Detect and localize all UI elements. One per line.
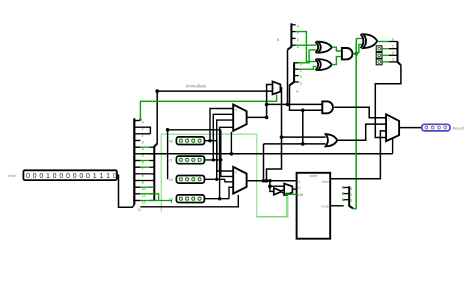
wire AND1 result vertical [355,39,357,209]
wire bit2 tap [140,133,150,135]
svg-text:Instr: Instr [8,173,16,178]
wire r2 to mux1 in2 [217,120,234,179]
svg-text:0: 0 [235,170,237,174]
svg-text:1: 1 [350,193,352,197]
wire bit11 [140,194,158,201]
wire r0 out [204,140,217,142]
svg-text:r3: r3 [169,197,172,201]
svg-text:0: 0 [53,173,57,180]
wire bit0 to imm-mux select [140,94,276,120]
multiplexer MUX1 (read port A) [233,105,246,131]
wire subtract select [257,194,287,216]
junction on OR in1 line [301,142,305,146]
multiplexer MUX4 (B invert select) [284,184,292,196]
wire Sum to result mux in2 [330,131,386,179]
and gate AND2 [322,101,333,113]
wire r3 to mux1 in3 [220,127,234,198]
multiplexer MUX5 (result select) [386,114,399,141]
svg-text:2: 2 [297,38,299,42]
not gate N1 [274,188,282,195]
junction NOT branch [268,179,272,183]
svg-text:adder: adder [309,174,318,178]
svg-text:0: 0 [113,173,117,180]
svg-text:3: 3 [300,82,302,86]
wire to NOT in [270,181,274,192]
wire XOR2 out to AND1 [332,57,342,65]
multiplexer MUX2 (read port B) [233,167,246,194]
probe r3 [176,195,204,203]
svg-text:Sum: Sum [322,180,329,184]
wire Bmux in0 [270,185,284,187]
or gate OR1 [326,134,338,146]
xor gate X2 [318,59,332,70]
wire result mux select [392,139,394,154]
svg-text:0: 0 [79,173,83,180]
wire A0 to XOR1 in1 [299,50,316,63]
probe r1 [176,156,204,164]
svg-text:0: 0 [26,173,30,180]
splitter SB (B operand bits) [288,23,292,49]
wire r2 to mux2 in2 [225,179,233,182]
junction r1 on riser [219,158,222,161]
svg-text:B: B [277,37,280,42]
wire bit12 [140,201,171,203]
wire OR in1 riser [263,144,265,181]
wire B3 to XOR1 in0 [296,44,317,46]
svg-text:0: 0 [33,173,37,180]
splitter SRT (combine flag bits) [398,42,401,66]
output pin P2 [376,52,382,58]
wire A1 to XOR2 in1 [299,66,316,69]
junction register fanout [208,139,211,142]
svg-text:0: 0 [297,24,299,28]
wire Bmux out to adder B [292,188,296,190]
wire r1 to mux1 in1 [213,114,233,160]
svg-text:Cout: Cout [321,204,328,208]
junction Immediate corner [155,89,159,93]
wire OR in0 line [282,136,326,138]
probe r0 [176,137,204,145]
junction B on AND line [286,103,290,107]
wire B operand down [267,88,282,181]
svg-text:3: 3 [392,58,394,62]
wire OR out to result mux in1 [337,124,386,140]
wire flag bus to result mux in3 [375,65,401,137]
and gate AND1 [342,48,353,59]
junction tap [301,109,305,113]
svg-text:1: 1 [93,173,97,180]
wire to Result pin [399,127,422,129]
svg-text:0: 0 [66,173,70,180]
svg-text:1: 1 [392,45,394,49]
svg-text:0: 0 [59,173,63,180]
xor gate X3 [363,34,377,48]
wire write data bus [168,130,221,180]
wire select bus [140,153,392,155]
svg-text:3: 3 [142,140,144,144]
wire r3 out [204,198,229,200]
wire bit1 tap [140,127,150,134]
wire r2 out [204,178,225,180]
wire mux2 out to adder A [247,180,297,182]
junction register fanout [212,158,215,161]
wire A bus to AND2 in1 [290,85,325,111]
svg-text:2: 2 [350,199,352,203]
junction OR in0 tap [280,135,284,139]
wire bit9 [140,180,149,182]
junction Bmux branch [268,184,272,188]
junction register fanout [215,178,218,181]
svg-text:r0: r0 [169,139,172,143]
wire B1 to XOR2 in0 [296,32,317,62]
probe r2 [176,176,204,184]
wire AND2 out to result mux in0 [334,107,386,118]
wire r0 to mux2 in0 [217,141,233,171]
svg-text:Result: Result [453,125,465,130]
svg-text:0: 0 [235,108,237,112]
wire AND1 out [353,53,356,55]
xor gate X1 [318,42,332,53]
output pin P1 [376,46,382,52]
wire XOR3 out [377,41,389,43]
wire pin stub [382,61,389,63]
output pin Result [422,124,450,131]
adder U_ADD [297,173,331,239]
splitter SRB (Cout combine) [349,186,353,208]
wire to XOR3 in1 [356,44,362,52]
junction mux1 select on bus [230,152,234,156]
svg-text:A: A [296,89,299,94]
junction AND1 out [354,52,358,56]
svg-text:0: 0 [350,187,352,191]
wire r3 to mux2 in3 [229,187,233,199]
svg-text:0: 0 [392,37,394,41]
wire A to AND2 in0 [267,103,324,105]
svg-text:0: 0 [39,173,43,180]
wire Instr to splitter [117,175,134,207]
junction bit0 leg [139,118,142,121]
junction write bus corner [166,128,170,132]
wire bit4 [140,146,149,148]
wire splitter base [353,207,356,210]
wire r1 out [204,159,220,161]
wire write bus to mux2 in1 [221,130,233,177]
splitter SA (A operand bits) [290,62,295,85]
junction Cin [285,193,289,197]
wire mux2 select [140,195,238,207]
wire pin stub [382,48,389,50]
splitter SP1 (instruction bits) [133,118,135,204]
svg-text:13: 13 [137,208,141,212]
svg-text:0: 0 [73,173,77,180]
wire bit10 [140,186,154,188]
svg-text:0: 0 [388,117,390,121]
output pin P3 [376,59,382,65]
wire Cout [330,205,344,207]
wire pin stub [382,54,389,56]
wire mux1 out to imm-mux in0 [247,85,273,118]
splitter SP2 (immediate field) [154,144,157,201]
wire down to OR in1 line [302,110,304,144]
svg-text:Immediate: Immediate [186,84,207,89]
wire bit8 [140,173,149,175]
wire Immediate bus [157,91,272,144]
svg-text:2: 2 [392,51,394,55]
svg-text:Cin: Cin [298,193,303,197]
svg-text:r2: r2 [169,178,172,182]
junction register fanout [218,197,221,200]
wire B bus down [287,50,289,105]
svg-text:1: 1 [99,173,103,180]
junction OR riser on adder line [262,179,266,183]
svg-text:1: 1 [106,173,110,180]
wire XOR1 out to AND1 [332,47,342,51]
svg-text:0: 0 [142,120,144,124]
wire to XOR3 in0 [356,38,362,40]
wire OR in1 line [264,143,326,145]
input pin Instr (14-bit) [23,170,117,180]
svg-text:1: 1 [46,173,50,180]
wire Cin [287,193,297,195]
svg-text:r1: r1 [169,159,172,163]
wire bit6 [140,160,149,162]
multiplexer MUX3 (immediate select) [273,81,281,94]
selection highlight (pale green) around register file [161,134,288,217]
svg-text:2: 2 [300,75,302,79]
wire bit7 [140,166,149,168]
svg-text:0: 0 [86,173,90,180]
junction mux1 out corner [265,116,269,120]
wire mux1 select [230,132,232,154]
junction A operand branch [265,103,269,107]
junction B onto adder line [265,179,269,183]
wire r0 to mux1 in0 [210,109,233,141]
